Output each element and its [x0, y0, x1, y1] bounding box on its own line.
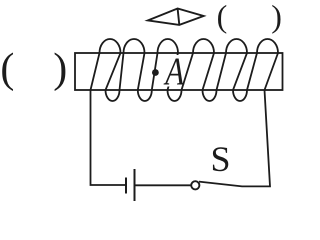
left circuit wire [91, 90, 126, 185]
switch blade and right wire [199, 90, 270, 186]
battery: long plate (right) [134, 169, 136, 201]
svg-text:(: ( [217, 0, 228, 34]
svg-text:A: A [163, 50, 185, 93]
svg-text:): ) [271, 0, 282, 34]
coil winding (second part) [182, 39, 279, 101]
wire battery to switch [135, 184, 192, 186]
compass needle (diamond with divider) [148, 9, 204, 25]
label A background [163, 55, 184, 87]
battery: short plate (left) [125, 178, 127, 194]
svg-text:(: ( [0, 46, 14, 92]
svg-text:S: S [211, 139, 231, 179]
svg-text:): ) [53, 46, 67, 92]
switch pivot circle [191, 181, 199, 189]
coil winding (first part) [91, 39, 182, 101]
solenoid core bar [75, 53, 283, 90]
node A dot [152, 69, 159, 76]
